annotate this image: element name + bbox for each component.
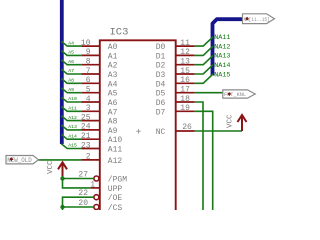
svg-text:D0: D0: [156, 43, 166, 52]
svg-text:A5: A5: [108, 90, 118, 99]
svg-text:A2: A2: [108, 62, 118, 71]
pin A6 (pin 4) of IC3: [81, 95, 117, 108]
svg-text:A10: A10: [68, 96, 77, 102]
bus A[4..15] (left vertical bus): [60, 0, 64, 144]
junction VCC//PGM: [60, 176, 64, 180]
svg-text:A1: A1: [108, 52, 118, 61]
svg-text:D4: D4: [156, 80, 166, 89]
wire net A11 with bus entry: [61, 106, 81, 112]
svg-text:8: 8: [86, 58, 91, 67]
svg-text:NA12: NA12: [214, 43, 230, 51]
wire net A5 with bus entry: [61, 50, 81, 56]
svg-text:26: 26: [182, 123, 192, 132]
svg-text:FNT_KNL: FNT_KNL: [224, 92, 246, 98]
bus NA[11..15] (right bus with bend to flag): [213, 19, 243, 75]
wire net A14 with bus entry: [61, 133, 81, 139]
svg-text:D3: D3: [156, 71, 166, 80]
svg-text:A3: A3: [108, 71, 118, 80]
svg-text:24: 24: [81, 123, 91, 132]
wire net A15 with bus entry: [61, 143, 81, 149]
svg-text:A15: A15: [68, 143, 77, 149]
svg-text:15: 15: [180, 67, 190, 76]
svg-text:A7: A7: [68, 68, 74, 74]
wire net A6 with bus entry: [61, 59, 81, 65]
wire net from D7 down off page: [195, 111, 213, 210]
pin /OE (pin 22) of IC3, active-low bubble: [78, 189, 122, 203]
svg-text:NA13: NA13: [214, 53, 230, 61]
pin D2 (pin 13) of IC3: [156, 58, 195, 71]
wire net NA11 with bus entry: [195, 34, 231, 46]
wire net NA15 with bus entry: [195, 71, 231, 83]
wire net A13 with bus entry: [61, 124, 81, 130]
wire VCC net to /PGM and UPP: [63, 176, 94, 188]
svg-text:A12: A12: [108, 157, 123, 166]
wire net NEW_OLD: [39, 159, 82, 161]
net label flag NEW_OLD: [6, 156, 39, 164]
svg-text:UPP: UPP: [108, 185, 123, 194]
svg-text:D6: D6: [156, 99, 166, 108]
svg-text:10: 10: [81, 39, 91, 48]
svg-text:NA15: NA15: [214, 71, 230, 79]
pin D0 (pin 11) of IC3: [156, 39, 195, 52]
pin A8 (pin 25) of IC3: [81, 113, 118, 126]
wire net NA13 with bus entry: [195, 53, 231, 65]
svg-text:17: 17: [180, 86, 190, 95]
svg-text:1: 1: [90, 181, 95, 190]
svg-text:A12: A12: [68, 115, 77, 121]
svg-text:16: 16: [180, 76, 190, 85]
junction /CS wire: [60, 205, 64, 209]
svg-text:13: 13: [180, 58, 190, 67]
svg-text:18: 18: [180, 95, 190, 104]
wire net A7 with bus entry: [61, 68, 81, 74]
svg-text:A0: A0: [108, 43, 118, 52]
wire net NA14 with bus entry: [195, 62, 231, 74]
net label flag FNT_KNL: [223, 90, 255, 98]
wire net FNT_KNL: [195, 92, 223, 94]
svg-text:A14: A14: [68, 133, 77, 139]
pin A12 (pin 2) of IC3: [81, 153, 122, 166]
wire net /OE-/CS down off page: [63, 197, 94, 210]
pin A4 (pin 6) of IC3: [81, 76, 117, 89]
pin A3 (pin 7) of IC3: [81, 67, 117, 80]
svg-text:D1: D1: [156, 52, 166, 61]
op IC3 EPROM body outline: [100, 40, 176, 211]
svg-text:A4: A4: [68, 40, 74, 46]
pin UPP (pin 1) of IC3: [90, 181, 122, 194]
svg-text:D5: D5: [156, 90, 166, 99]
svg-text:2: 2: [86, 153, 91, 162]
pin A0 (pin 10) of IC3: [81, 39, 118, 52]
svg-text:A6: A6: [108, 99, 118, 108]
svg-text:A4: A4: [108, 80, 118, 89]
svg-text:19: 19: [180, 104, 190, 113]
wire net A8 with bus entry: [61, 78, 81, 84]
VCC supply symbol (right): [227, 114, 247, 131]
pin D6 (pin 18) of IC3: [156, 95, 195, 108]
svg-text:/PGM: /PGM: [108, 176, 127, 185]
svg-text:A10: A10: [108, 136, 123, 145]
svg-text:9: 9: [86, 48, 91, 57]
svg-text:NC: NC: [156, 128, 166, 137]
svg-text:A13: A13: [68, 124, 77, 130]
IC3 name label: [110, 27, 129, 39]
svg-text:A9: A9: [108, 127, 118, 136]
svg-text:A9: A9: [68, 87, 74, 93]
pin D4 (pin 16) of IC3: [156, 76, 195, 89]
svg-text:IC3: IC3: [110, 27, 129, 39]
wire net from D6 down off page: [195, 102, 203, 211]
pin /CS (pin 20) of IC3, active-low bubble: [78, 199, 122, 213]
svg-text:25: 25: [81, 113, 91, 122]
pin D3 (pin 15) of IC3: [156, 67, 195, 80]
svg-text:3: 3: [86, 104, 91, 113]
wire net A12 with bus entry: [61, 115, 81, 121]
svg-text:23: 23: [81, 141, 91, 150]
svg-text:5: 5: [86, 86, 91, 95]
pin A9 (pin 24) of IC3: [81, 123, 118, 136]
pin A1 (pin 9) of IC3: [81, 48, 117, 61]
wire net A10 with bus entry: [61, 96, 81, 102]
svg-text:VCC: VCC: [227, 114, 235, 128]
svg-text:A6: A6: [68, 59, 74, 65]
svg-text:/OE: /OE: [108, 194, 123, 203]
svg-text:VCC: VCC: [47, 160, 55, 174]
svg-text:7: 7: [86, 67, 91, 76]
pin A5 (pin 5) of IC3: [81, 86, 117, 99]
bus label flag NA[11..15]: [243, 14, 275, 24]
VCC supply symbol (left): [47, 160, 67, 176]
IC3 symbol origin cross marker: [136, 129, 140, 133]
svg-text:NA14: NA14: [214, 62, 230, 70]
svg-text:/CS: /CS: [108, 204, 123, 210]
pin A2 (pin 8) of IC3: [81, 58, 117, 71]
svg-text:A5: A5: [68, 50, 74, 56]
svg-text:A7: A7: [108, 108, 118, 117]
pin NC (pin 26) of IC3: [156, 123, 195, 137]
svg-text:6: 6: [86, 76, 91, 85]
pin A11 (pin 23) of IC3: [81, 141, 123, 154]
svg-text:A11: A11: [108, 146, 123, 155]
wire NC to VCC: [195, 130, 242, 132]
svg-text:21: 21: [81, 132, 91, 141]
pin D5 (pin 17) of IC3: [156, 86, 195, 99]
wire net A4 with bus entry: [61, 40, 81, 46]
pin A7 (pin 3) of IC3: [81, 104, 117, 117]
wire net NA12 with bus entry: [195, 43, 231, 55]
pin A10 (pin 21) of IC3: [81, 132, 123, 145]
pin D7 (pin 19) of IC3: [156, 104, 195, 117]
svg-text:D7: D7: [156, 108, 166, 117]
svg-text:12: 12: [180, 48, 190, 57]
svg-text:D2: D2: [156, 62, 166, 71]
pin D1 (pin 12) of IC3: [156, 48, 195, 61]
svg-text:A8: A8: [108, 118, 118, 127]
svg-text:NA11: NA11: [214, 34, 230, 42]
wire net A9 with bus entry: [61, 87, 81, 93]
svg-text:A11: A11: [68, 106, 77, 112]
svg-text:11: 11: [180, 39, 190, 48]
pin /PGM (pin 27) of IC3, active-low bubble: [78, 170, 127, 184]
svg-text:A8: A8: [68, 78, 74, 84]
svg-text:4: 4: [86, 95, 91, 104]
